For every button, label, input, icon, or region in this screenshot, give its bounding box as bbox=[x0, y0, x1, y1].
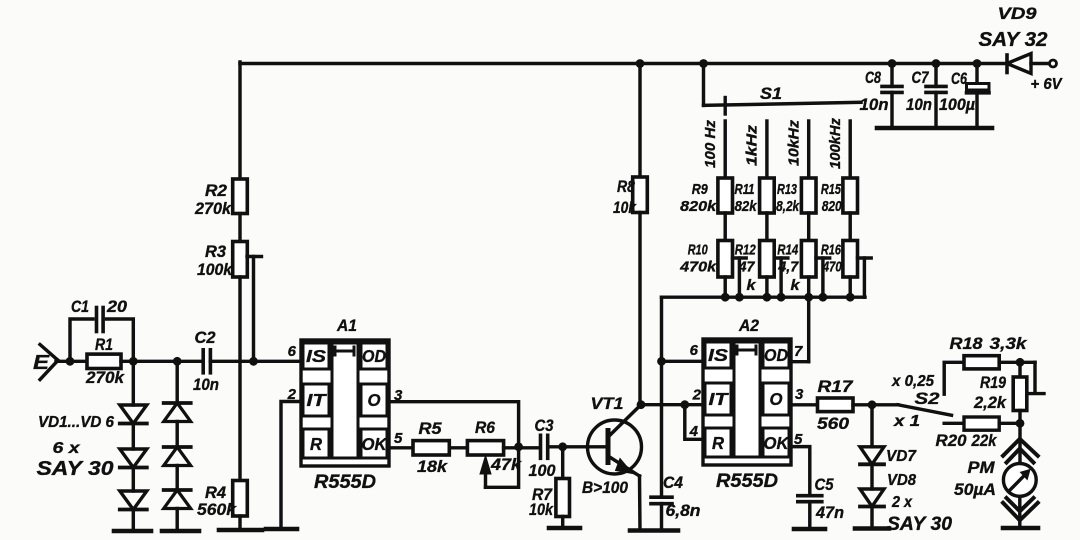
label R17 bbox=[818, 377, 855, 396]
svg-text:470k: 470k bbox=[679, 259, 717, 276]
label VD9 bbox=[998, 4, 1038, 23]
label x 0,25 bbox=[891, 373, 934, 390]
node R3 tap junction bbox=[249, 357, 258, 366]
diode VD8 bbox=[860, 489, 884, 507]
svg-text:10k: 10k bbox=[529, 500, 554, 519]
label C2 bbox=[195, 329, 216, 347]
label R5 bbox=[419, 419, 443, 438]
trimmer R14 bbox=[801, 241, 816, 278]
label A2 bbox=[738, 316, 759, 335]
wire diode column 1 bbox=[132, 361, 135, 405]
svg-text:IS: IS bbox=[306, 346, 326, 366]
svg-text:R9: R9 bbox=[692, 181, 709, 198]
svg-text:560: 560 bbox=[817, 414, 850, 433]
svg-text:6 x: 6 x bbox=[53, 440, 81, 457]
label R11 value 82k bbox=[735, 198, 758, 215]
label C3 value 100 bbox=[529, 462, 557, 480]
node bus tap junction bbox=[777, 293, 786, 302]
wire S1 contact 10kHz bbox=[807, 121, 810, 178]
svg-text:k: k bbox=[747, 277, 757, 294]
svg-text:10kHz: 10kHz bbox=[787, 119, 803, 166]
svg-text:5: 5 bbox=[794, 431, 803, 448]
resistor R15 bbox=[843, 178, 858, 213]
svg-text:C1: C1 bbox=[71, 298, 89, 316]
label S2 bbox=[915, 389, 941, 408]
label R12 value 47 bbox=[738, 259, 756, 276]
svg-text:R: R bbox=[712, 433, 724, 453]
wire R4 to ground bbox=[238, 516, 241, 530]
svg-text:SAY 32: SAY 32 bbox=[979, 29, 1048, 51]
label R19 bbox=[980, 374, 1007, 392]
capacitor C8 bbox=[882, 64, 902, 129]
label R12 value k bbox=[747, 277, 757, 294]
label R3 bbox=[205, 242, 227, 261]
label A1 bbox=[336, 316, 357, 335]
svg-text:A2: A2 bbox=[738, 316, 759, 335]
svg-text:R555D: R555D bbox=[314, 472, 376, 493]
resistor R5 bbox=[413, 441, 449, 455]
label R20 bbox=[936, 432, 968, 450]
meter PM chevrons bottom bbox=[1003, 498, 1038, 520]
label S1 bbox=[760, 84, 782, 103]
wire VD1-VD2 bbox=[132, 424, 135, 450]
ground diode column 1 bbox=[114, 529, 151, 534]
ground bar capacitors bbox=[877, 126, 992, 131]
svg-text:+ 6V: + 6V bbox=[1031, 76, 1063, 93]
svg-text:O: O bbox=[368, 390, 381, 410]
label R17 value 560 bbox=[817, 414, 850, 433]
svg-text:x 1: x 1 bbox=[893, 413, 920, 430]
ground A1 pin2 bbox=[266, 527, 297, 532]
label PM bbox=[968, 458, 996, 477]
wire diode column 2 bbox=[175, 361, 178, 403]
wire S1 contact 100kHz bbox=[848, 121, 851, 178]
wire A1 pin5 bbox=[389, 446, 413, 449]
svg-text:R18: R18 bbox=[950, 335, 984, 353]
label A2 pin 4 bbox=[689, 423, 699, 440]
svg-text:6,8n: 6,8n bbox=[666, 502, 701, 520]
label R15 value 820 bbox=[822, 198, 843, 215]
svg-text:6: 6 bbox=[690, 342, 699, 359]
node E junction bbox=[66, 357, 75, 366]
op-amp U A2 timer R555D bbox=[703, 339, 791, 465]
wire VD6 to ground bbox=[175, 509, 178, 532]
diode VD1 bbox=[120, 405, 147, 424]
label R5 value 18k bbox=[417, 457, 449, 476]
label 6x bbox=[53, 440, 81, 457]
svg-text:R16: R16 bbox=[821, 242, 841, 259]
wire A2 pin4 stub bbox=[685, 405, 703, 440]
label R20 value 22k bbox=[971, 432, 998, 450]
wire bank bus bbox=[662, 295, 866, 298]
label VD1...VD6 bbox=[38, 414, 114, 431]
wire R8 to VT1 collector bbox=[638, 213, 641, 405]
svg-text:18k: 18k bbox=[417, 457, 449, 476]
label C2 value 10n bbox=[193, 376, 219, 394]
label 2x bbox=[891, 494, 913, 511]
svg-text:IS: IS bbox=[708, 345, 728, 365]
svg-text:R1: R1 bbox=[95, 335, 113, 354]
label C8 bbox=[865, 69, 882, 87]
svg-text:E: E bbox=[33, 352, 50, 374]
diode VD6 bbox=[164, 490, 191, 509]
wire VD4-VD5 bbox=[175, 422, 178, 448]
ground VD7 VD8 bbox=[855, 526, 889, 531]
svg-text:R20: R20 bbox=[936, 432, 968, 450]
svg-text:R6: R6 bbox=[475, 418, 495, 437]
node C3/R7 junction bbox=[558, 442, 567, 451]
wire VD3 to ground bbox=[132, 510, 135, 532]
label R6 bbox=[475, 418, 495, 437]
capacitor C6 electrolytic bbox=[967, 64, 990, 129]
switch S2 contact x0,25 bbox=[944, 362, 964, 394]
label 10kHz bbox=[787, 119, 803, 166]
resistor R7 bbox=[556, 447, 570, 528]
label R2 value 270k bbox=[194, 199, 232, 218]
trimmer R3 tap bbox=[247, 257, 262, 362]
wire meter top bbox=[1018, 423, 1021, 464]
svg-text:3: 3 bbox=[394, 387, 403, 404]
wire A2 pin3 bbox=[791, 403, 818, 406]
svg-text:82k: 82k bbox=[735, 198, 758, 215]
svg-text:22k: 22k bbox=[971, 432, 998, 450]
svg-text:10n: 10n bbox=[860, 96, 889, 114]
svg-text:6: 6 bbox=[288, 343, 297, 360]
trimmer R3 bbox=[233, 242, 248, 278]
wire VD8 to ground bbox=[870, 508, 873, 528]
capacitor C3 bbox=[541, 435, 548, 458]
svg-text:50µA: 50µA bbox=[954, 480, 996, 499]
wire R10 to bus bbox=[723, 277, 726, 297]
svg-text:C3: C3 bbox=[535, 417, 554, 435]
svg-text:S2: S2 bbox=[915, 389, 941, 408]
label C3 bbox=[535, 417, 554, 435]
ground VT1/C4 bbox=[630, 528, 678, 533]
wire R5-R6 bbox=[449, 446, 467, 449]
svg-text:7: 7 bbox=[794, 343, 803, 360]
trimmer R19 tap bbox=[1028, 362, 1045, 393]
wire A2 pin6 bbox=[662, 360, 704, 363]
label C1 value 20 bbox=[106, 298, 128, 316]
svg-text:2: 2 bbox=[287, 386, 297, 403]
wire S1 contact 100Hz bbox=[723, 121, 726, 178]
svg-text:R3: R3 bbox=[205, 242, 227, 261]
trimmer R10 tap bbox=[733, 258, 747, 297]
svg-text:2 x: 2 x bbox=[891, 494, 913, 511]
node pin2/pin4 junction bbox=[680, 400, 689, 409]
svg-text:2,2k: 2,2k bbox=[973, 394, 1007, 412]
svg-text:1kHz: 1kHz bbox=[745, 124, 761, 166]
switch S1 pole wire bbox=[702, 64, 705, 106]
capacitor C5 bbox=[798, 496, 822, 529]
svg-text:S1: S1 bbox=[760, 84, 782, 103]
resistor R4 bbox=[233, 481, 248, 517]
wire bus riser to A2 pin7 bbox=[807, 297, 810, 362]
meter PM chevrons top bbox=[1003, 439, 1038, 463]
svg-text:k: k bbox=[791, 277, 801, 294]
node rail/C7 bbox=[932, 59, 941, 68]
label VD8 bbox=[887, 472, 916, 489]
input E probe bbox=[40, 345, 58, 380]
label SAY 30 input diodes bbox=[37, 458, 114, 480]
wire R11-R12 bbox=[765, 213, 768, 241]
label A1 pin 2 bbox=[287, 386, 297, 403]
wire A1 pin3 bbox=[389, 402, 519, 447]
wire meter bottom bbox=[1018, 496, 1021, 528]
wire R6 to node bbox=[504, 446, 540, 449]
wire S1 contact 1kHz bbox=[765, 121, 768, 178]
label R4 value 560k bbox=[197, 500, 238, 519]
diode VD7 bbox=[860, 447, 884, 465]
label C6 bbox=[951, 70, 968, 88]
label 1kHz bbox=[745, 124, 761, 166]
wire A1 pin2 to ground bbox=[281, 402, 301, 530]
resistor R13 bbox=[801, 178, 816, 213]
resistor R17 bbox=[818, 398, 854, 412]
svg-text:5: 5 bbox=[394, 430, 403, 447]
label C7 value 10n bbox=[906, 96, 932, 114]
wire +6V top rail bbox=[240, 62, 1007, 65]
label A2 R555D bbox=[716, 471, 778, 492]
node bus junction bbox=[846, 293, 855, 302]
svg-text:R10: R10 bbox=[688, 242, 708, 259]
label A2 pin 2 bbox=[692, 387, 702, 404]
svg-text:OK: OK bbox=[362, 434, 388, 454]
wire R16 to bus bbox=[848, 277, 851, 297]
svg-text:47n: 47n bbox=[815, 504, 844, 522]
capacitor C7 bbox=[926, 64, 946, 129]
label R1 value 270k bbox=[85, 368, 126, 387]
svg-text:OD: OD bbox=[362, 346, 386, 366]
resistor R1 bbox=[87, 354, 121, 368]
label R4 bbox=[205, 483, 227, 502]
svg-text:PM: PM bbox=[968, 458, 996, 477]
diode VD5 bbox=[164, 447, 191, 466]
wire A2 pin7 bbox=[791, 360, 809, 363]
label 100kHz bbox=[828, 117, 844, 169]
node R17/VD7 junction bbox=[868, 400, 877, 409]
node VT1 collector bbox=[637, 400, 646, 409]
wire R17 to S2 bbox=[853, 403, 898, 406]
svg-text:R2: R2 bbox=[205, 181, 228, 200]
label A1 pin 5 bbox=[394, 430, 403, 447]
wire R12 to bus bbox=[765, 277, 768, 297]
label R14 value k bbox=[791, 277, 801, 294]
label 50µA bbox=[954, 480, 996, 499]
node rail/S1 bbox=[699, 59, 708, 68]
diode VD3 bbox=[120, 491, 147, 510]
svg-text:x 0,25: x 0,25 bbox=[891, 373, 934, 390]
svg-text:R19: R19 bbox=[980, 374, 1007, 392]
svg-text:20: 20 bbox=[106, 298, 128, 316]
label x 1 bbox=[893, 413, 920, 430]
svg-text:47: 47 bbox=[738, 259, 756, 276]
label C1 bbox=[71, 298, 89, 316]
label C5 bbox=[815, 476, 835, 494]
node R1 out junction bbox=[129, 357, 138, 366]
svg-text:C7: C7 bbox=[912, 69, 930, 87]
wire VD7-VD8 bbox=[870, 466, 873, 489]
label R10 bbox=[688, 242, 708, 259]
svg-text:4,7: 4,7 bbox=[777, 259, 799, 276]
node bus junction bbox=[763, 293, 772, 302]
svg-text:SAY 30: SAY 30 bbox=[887, 514, 952, 535]
label VT1 B>100 bbox=[582, 479, 629, 497]
label VD7 bbox=[886, 448, 917, 465]
svg-text:OK: OK bbox=[764, 433, 790, 453]
label C6 value 100µ bbox=[939, 96, 975, 114]
diode VD9 bbox=[1007, 54, 1049, 74]
svg-text:O: O bbox=[770, 389, 783, 409]
label R12 bbox=[735, 242, 756, 259]
terminal +6V bbox=[1050, 60, 1057, 67]
capacitor C1 branch bbox=[70, 308, 133, 362]
label R13 value 8,2k bbox=[776, 198, 800, 215]
svg-text:10k: 10k bbox=[613, 198, 637, 217]
svg-text:100 Hz: 100 Hz bbox=[703, 119, 719, 168]
resistor R9 bbox=[718, 178, 733, 213]
wire R9-R10 bbox=[723, 213, 726, 241]
transistor VT1 bbox=[588, 405, 642, 531]
wire R14 to bus bbox=[807, 277, 810, 297]
svg-text:470: 470 bbox=[822, 259, 842, 276]
resistor R18 bbox=[964, 356, 999, 369]
svg-text:R: R bbox=[310, 434, 322, 454]
label R16 bbox=[821, 242, 841, 259]
wire R15-R16 bbox=[848, 213, 851, 241]
ground meter bbox=[1003, 526, 1038, 531]
switch S2 arm bbox=[898, 405, 952, 415]
svg-text:R555D: R555D bbox=[716, 471, 778, 492]
node rail/C8 bbox=[888, 59, 897, 68]
node R19/R20/meter bbox=[1016, 419, 1025, 428]
svg-text:C5: C5 bbox=[815, 476, 835, 494]
svg-text:10n: 10n bbox=[193, 376, 219, 394]
svg-text:820k: 820k bbox=[680, 198, 717, 215]
label R11 bbox=[735, 181, 755, 198]
wire A2 pin5 bbox=[791, 447, 810, 495]
trimmer R19 bbox=[1013, 362, 1027, 423]
trimmer R12 bbox=[760, 241, 775, 278]
svg-text:4: 4 bbox=[689, 423, 699, 440]
node R18/R19 bbox=[1016, 358, 1025, 367]
svg-text:C8: C8 bbox=[865, 69, 882, 87]
svg-text:C2: C2 bbox=[195, 329, 216, 347]
svg-text:VD8: VD8 bbox=[887, 472, 916, 489]
label A2 pin 7 bbox=[794, 343, 803, 360]
label A2 pin 3 bbox=[795, 386, 804, 403]
diode VD4 bbox=[164, 403, 191, 422]
wire R18 to R19 bbox=[999, 361, 1035, 364]
ground R4 bbox=[219, 528, 262, 533]
svg-text:3,3k: 3,3k bbox=[990, 335, 1028, 353]
label R9 value 820k bbox=[680, 198, 717, 215]
node bus junction bbox=[804, 293, 813, 302]
diode VD2 bbox=[120, 449, 147, 468]
wire R3 to R4 bbox=[238, 277, 241, 481]
trimmer R14 tap bbox=[816, 258, 830, 297]
op-amp U A1 timer R555D bbox=[301, 340, 389, 466]
svg-text:2: 2 bbox=[692, 387, 702, 404]
svg-text:100µ: 100µ bbox=[939, 96, 975, 114]
label R10 value 470k bbox=[679, 259, 717, 276]
switch S1 contact stub 100Hz bbox=[724, 98, 727, 115]
capacitor C2 bbox=[203, 350, 210, 373]
svg-text:820: 820 bbox=[822, 198, 843, 215]
capacitor C4 bbox=[651, 361, 672, 530]
svg-text:100: 100 bbox=[529, 462, 557, 480]
svg-text:270k: 270k bbox=[85, 368, 126, 387]
label R14 value 4,7 bbox=[777, 259, 799, 276]
label A2 pin 5 bbox=[794, 431, 803, 448]
label R7 value 10k bbox=[529, 500, 554, 519]
wire R13-R14 bbox=[807, 213, 810, 241]
wire VD5-VD6 bbox=[175, 466, 178, 491]
trimmer R6 bbox=[467, 441, 503, 455]
node pin6/C4 junction bbox=[657, 357, 666, 366]
label R8 bbox=[617, 177, 635, 196]
label A1 R555D bbox=[314, 472, 376, 493]
label R16 value 470 bbox=[822, 259, 842, 276]
trimmer R12 tap bbox=[774, 258, 788, 297]
svg-text:A1: A1 bbox=[336, 316, 357, 335]
node bus junction bbox=[721, 293, 730, 302]
wire R8 top bbox=[638, 64, 641, 178]
label E bbox=[33, 352, 50, 374]
svg-text:R15: R15 bbox=[821, 181, 841, 198]
label R1 bbox=[95, 335, 113, 354]
wire VD2-VD3 bbox=[132, 468, 135, 492]
svg-text:SAY 30: SAY 30 bbox=[37, 458, 114, 480]
meter PM body bbox=[1003, 464, 1036, 497]
wire R1 to C2 bbox=[121, 360, 200, 363]
node rail/C6 bbox=[973, 59, 982, 68]
trimmer R10 bbox=[718, 241, 733, 278]
node rail/R8 bbox=[636, 59, 645, 68]
svg-text:VD1...VD 6: VD1...VD 6 bbox=[38, 414, 114, 431]
label +6V bbox=[1031, 76, 1063, 93]
label 100 Hz bbox=[703, 119, 719, 168]
resistor R8 bbox=[633, 177, 648, 213]
svg-text:100kHz: 100kHz bbox=[828, 117, 844, 169]
label R8 value 10k bbox=[613, 198, 637, 217]
ground R7 bbox=[549, 526, 580, 531]
svg-text:8,2k: 8,2k bbox=[776, 198, 800, 215]
label SAY 30 clamp bbox=[887, 514, 952, 535]
svg-text:R13: R13 bbox=[777, 181, 797, 198]
wire bus left drop to pin6 bbox=[660, 297, 663, 361]
ground C5 bbox=[794, 527, 825, 532]
label A1 pin 3 bbox=[394, 387, 403, 404]
svg-text:R17: R17 bbox=[818, 377, 855, 396]
label R14 bbox=[777, 242, 798, 259]
svg-text:B>100: B>100 bbox=[582, 479, 629, 497]
label R13 bbox=[777, 181, 797, 198]
label VT1 bbox=[591, 394, 624, 413]
trimmer R6 wiper bbox=[480, 447, 519, 488]
resistor R2 bbox=[233, 179, 248, 214]
svg-text:C6: C6 bbox=[951, 70, 968, 88]
switch S2 contact x1 / resistor R20 bbox=[944, 417, 999, 430]
resistor R11 bbox=[760, 178, 775, 213]
svg-text:VD7: VD7 bbox=[886, 448, 917, 465]
label C4 bbox=[663, 474, 683, 492]
svg-text:R5: R5 bbox=[419, 419, 443, 438]
wire R20 to R19 bottom bbox=[999, 422, 1020, 425]
svg-text:OD: OD bbox=[764, 345, 788, 365]
wire rail drop to R2 bbox=[238, 62, 241, 179]
wire VT1 to A2 pin2 bbox=[641, 403, 703, 406]
